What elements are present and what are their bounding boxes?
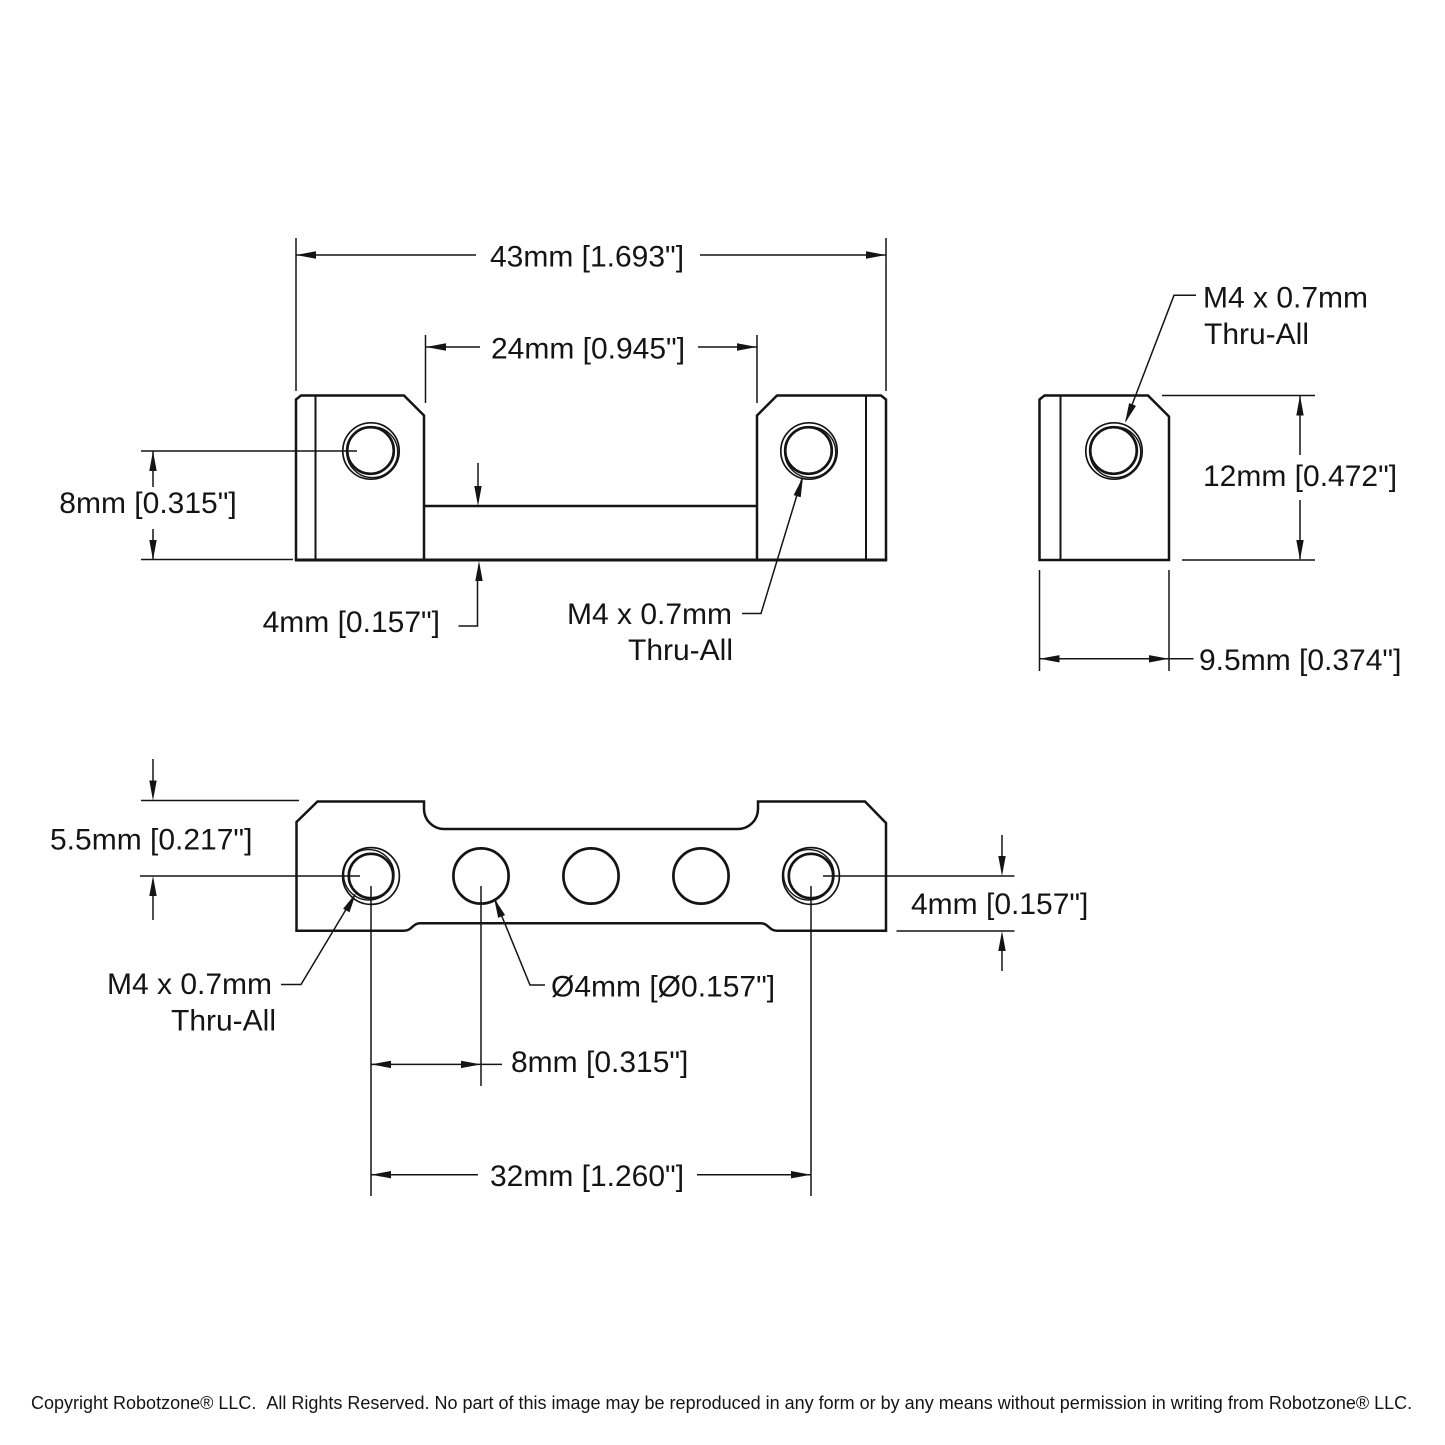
svg-text:32mm [1.260"]: 32mm [1.260"]	[490, 1160, 684, 1193]
dim 43mm: dimension line	[296, 254, 886, 256]
dim 8mm (plan): dimension line	[371, 1063, 502, 1065]
dim 4mm (plan right): upper arrowhead	[998, 856, 1005, 876]
plan view: part outline with notch, corner chamfers and rear step	[297, 802, 887, 931]
dim 5.5mm (plan left): lower arrowhead	[149, 876, 156, 896]
dim 12mm (side): bottom arrowhead	[1296, 540, 1303, 560]
dim 8mm (plan): left arrowhead	[371, 1061, 391, 1068]
label M4 thread (side): arrowhead	[1125, 403, 1136, 423]
dim 5.5mm (plan left): lower arrow line	[152, 894, 154, 920]
dim 5.5mm (plan left): top extension line	[141, 800, 299, 802]
side view: tapped hole, cosmetic thread arc	[1090, 427, 1141, 478]
plan view: clearance hole 4	[673, 848, 728, 903]
dim 4mm (plan right): hole centre extension line	[823, 875, 1015, 877]
dim 8mm (front left): bottom arrowhead	[149, 540, 156, 560]
side view: chamfer face line	[1060, 396, 1062, 561]
label M4 thread (front): arrowhead	[794, 477, 803, 497]
dim 5.5mm (plan left): upper arrowhead	[149, 781, 156, 801]
dim 8mm (plan): extension lines	[371, 886, 481, 1196]
svg-text:4mm [0.157"]: 4mm [0.157"]	[263, 606, 440, 639]
dim 8mm (front left): hole centre extension line	[141, 450, 357, 452]
label M4 thread (plan): arrowhead	[343, 893, 356, 912]
svg-text:Thru-All: Thru-All	[628, 634, 733, 667]
plan view: tapped hole 5, cosmetic thread arc	[784, 850, 834, 900]
dim 32mm (plan): left arrowhead	[371, 1171, 391, 1178]
dim 43mm: left arrowhead	[296, 251, 316, 258]
dim 8mm (front left): top arrowhead	[149, 451, 156, 471]
plan view: tapped hole 5, minor circle	[789, 854, 833, 898]
front view: right tapped hole, cosmetic thread arc	[785, 427, 836, 478]
dim 4mm (plan right): lower arrowhead	[998, 931, 1005, 951]
plan view: tapped hole 1, minor circle	[349, 854, 393, 898]
svg-text:9.5mm [0.374"]: 9.5mm [0.374"]	[1199, 644, 1401, 677]
svg-text:Ø4mm [Ø0.157"]: Ø4mm [Ø0.157"]	[551, 971, 775, 1004]
front view: part bottom edge	[295, 559, 887, 562]
dim 24mm: right arrowhead	[737, 343, 757, 350]
plan view: clearance hole 2	[453, 848, 508, 903]
svg-text:8mm [0.315"]: 8mm [0.315"]	[59, 487, 236, 520]
plan view: tapped hole 1, thread circle	[343, 848, 400, 905]
front view: left block chamfer face line	[315, 396, 317, 561]
label diameter 4mm (plan): arrowhead	[494, 898, 505, 918]
dim 4mm (plan right): bottom extension line	[897, 930, 1015, 932]
dim 4mm (front bar): lower arrowhead	[475, 561, 482, 581]
plan view: tapped hole 1, cosmetic thread arc	[344, 850, 394, 900]
dim 9.5mm (side): left arrowhead	[1040, 655, 1060, 662]
dim 8mm (plan): right arrowhead	[461, 1061, 481, 1068]
front view: connecting bar top edge	[424, 505, 757, 508]
svg-text:8mm [0.315"]: 8mm [0.315"]	[511, 1046, 688, 1079]
svg-text:M4 x 0.7mm: M4 x 0.7mm	[107, 968, 272, 1001]
svg-text:24mm [0.945"]: 24mm [0.945"]	[491, 333, 685, 366]
dim 32mm (plan): dimension line	[371, 1174, 811, 1176]
front view: left block outline with corner chamfers	[296, 396, 424, 561]
dim 8mm (front left): dimension line	[152, 451, 154, 560]
svg-text:Thru-All: Thru-All	[1204, 318, 1309, 351]
dim 12mm (side): top arrowhead	[1296, 396, 1303, 416]
front view: right tapped hole, minor circle	[785, 427, 832, 474]
dim 9.5mm (side): right arrowhead	[1149, 655, 1169, 662]
front view: right block chamfer face line	[865, 396, 867, 561]
side view: block outline	[1040, 396, 1170, 561]
svg-text:5.5mm [0.217"]: 5.5mm [0.217"]	[50, 824, 252, 857]
dim 9.5mm (side): extension lines	[1040, 570, 1170, 671]
dim 4mm (plan right): upper arrow line	[1001, 835, 1003, 858]
dim 4mm (front bar): leader line to text	[459, 581, 478, 626]
dim 5.5mm (plan left): upper arrow line	[152, 759, 154, 782]
front view: left tapped hole, minor circle	[347, 427, 394, 474]
dim 8mm (front left): bottom extension line	[141, 559, 293, 561]
dim 9.5mm (side): dimension line	[1040, 658, 1194, 660]
svg-text:M4 x 0.7mm: M4 x 0.7mm	[1203, 282, 1368, 315]
svg-text:M4 x 0.7mm: M4 x 0.7mm	[567, 598, 732, 631]
dim 4mm (front bar): upper arrowhead	[474, 486, 481, 506]
side view: tapped hole, minor circle	[1090, 427, 1137, 474]
plan view: tapped hole 5, thread circle	[783, 848, 840, 905]
dim 12mm (side): extension lines	[1162, 396, 1315, 561]
dim 43mm: extension lines	[296, 238, 886, 391]
dim 12mm (side): dimension line	[1299, 396, 1301, 559]
label M4 thread (front): leader line	[742, 479, 802, 614]
dim 43mm: right arrowhead	[866, 251, 886, 258]
dim 5.5mm (plan left): hole centre extension line	[140, 875, 360, 877]
svg-text:43mm [1.693"]: 43mm [1.693"]	[490, 241, 684, 274]
front view: left tapped hole, thread circle	[343, 423, 399, 479]
dim 24mm: dimension line	[426, 346, 757, 348]
dim 24mm: left arrowhead	[426, 343, 446, 350]
svg-text:12mm [0.472"]: 12mm [0.472"]	[1203, 460, 1397, 493]
dim 4mm (front bar): upper arrow line	[477, 463, 479, 488]
dim 24mm: extension lines	[426, 335, 758, 403]
svg-text:Copyright Robotzone® LLC. All: Copyright Robotzone® LLC. All Rights Res…	[31, 1393, 1412, 1413]
label M4 thread (side): leader line	[1126, 295, 1196, 420]
front view: right block outline with corner chamfers	[757, 396, 886, 561]
front view: left tapped hole, cosmetic thread arc	[347, 427, 398, 478]
label diameter 4mm (plan): leader line	[495, 900, 545, 986]
dim 32mm (plan): extension line at hole 5	[810, 886, 812, 1196]
label M4 thread (plan): leader line	[281, 895, 355, 985]
dim 32mm (plan): right arrowhead	[791, 1171, 811, 1178]
svg-text:4mm [0.157"]: 4mm [0.157"]	[911, 888, 1088, 921]
plan view: clearance hole 3	[563, 848, 618, 903]
svg-text:Thru-All: Thru-All	[171, 1005, 276, 1038]
side view: tapped hole, thread circle	[1086, 423, 1142, 479]
front view: right tapped hole, thread circle	[781, 423, 837, 479]
dim 4mm (plan right): lower arrow line	[1001, 949, 1003, 971]
